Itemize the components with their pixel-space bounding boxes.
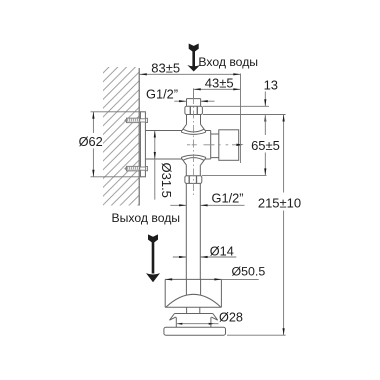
wall hatch bbox=[103, 67, 139, 206]
outlet flow arrow bbox=[146, 234, 160, 282]
inlet flow arrow bbox=[187, 44, 200, 72]
escutcheon plate bbox=[140, 112, 145, 177]
svg-text:65±5: 65±5 bbox=[251, 138, 280, 153]
centerline arrow bbox=[236, 144, 243, 146]
bottom bell flare bbox=[181, 155, 205, 165]
dim Ø31.5 bbox=[154, 131, 156, 200]
svg-text:Ø14: Ø14 bbox=[210, 244, 234, 258]
dim 13 bbox=[203, 106, 286, 114]
spreader neck bbox=[187, 307, 200, 313]
valve body Ø31.5 bbox=[145, 131, 210, 160]
svg-text:Ø31.5: Ø31.5 bbox=[159, 163, 174, 198]
svg-text:Выход воды: Выход воды bbox=[112, 211, 181, 225]
dim 65±5 bbox=[264, 115, 266, 176]
spreader dome Ø50.5 bbox=[165, 279, 221, 307]
outlet hex nut G1/2 bbox=[185, 176, 202, 184]
base flange bbox=[164, 327, 226, 335]
bonnet neck bbox=[211, 134, 219, 158]
svg-text:Вход воды: Вход воды bbox=[198, 55, 258, 69]
screw top bbox=[124, 118, 147, 123]
dim 83±5 bbox=[139, 74, 240, 164]
valve horizontal centerline bbox=[187, 144, 241, 146]
valve vertical centerline bbox=[193, 96, 195, 197]
svg-text:G1/2”: G1/2” bbox=[212, 191, 244, 206]
dim Ø62 bbox=[91, 112, 141, 177]
pipe below inlet nut bbox=[187, 115, 201, 125]
svg-text:215±10: 215±10 bbox=[258, 196, 301, 211]
inlet hex nut G1/2 bbox=[185, 106, 203, 114]
top bell flare bbox=[181, 124, 205, 134]
svg-text:83±5: 83±5 bbox=[151, 61, 180, 76]
wall face line bbox=[138, 68, 140, 206]
push button bbox=[219, 130, 239, 161]
svg-text:43±5: 43±5 bbox=[205, 76, 234, 91]
svg-text:Ø62: Ø62 bbox=[79, 134, 103, 149]
outlet pipe upper bbox=[186, 165, 200, 176]
outlet tube Ø14 bbox=[186, 183, 200, 279]
dim 43±5 bbox=[194, 88, 241, 98]
svg-text:13: 13 bbox=[264, 77, 278, 92]
dim 215±10 bbox=[283, 115, 285, 336]
screw bottom bbox=[124, 166, 147, 171]
svg-text:G1/2”: G1/2” bbox=[146, 87, 178, 102]
gasket flange bbox=[170, 314, 218, 328]
svg-text:Ø28: Ø28 bbox=[219, 311, 243, 325]
inlet pipe bbox=[187, 99, 201, 107]
svg-text:Ø50.5: Ø50.5 bbox=[232, 265, 266, 279]
